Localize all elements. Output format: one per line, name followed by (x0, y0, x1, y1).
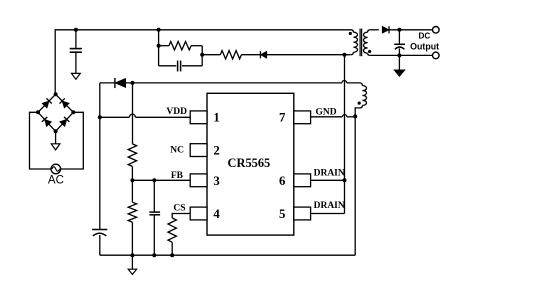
svg-text:CR5565: CR5565 (228, 156, 271, 170)
svg-text:CS: CS (173, 203, 185, 213)
svg-text:GND: GND (316, 107, 337, 117)
svg-text:2: 2 (213, 143, 219, 157)
svg-text:1: 1 (213, 110, 219, 124)
svg-text:DRAIN: DRAIN (314, 169, 345, 179)
svg-text:DC: DC (418, 32, 430, 41)
svg-text:4: 4 (213, 207, 220, 221)
svg-text:DRAIN: DRAIN (314, 201, 345, 211)
svg-text:7: 7 (279, 110, 286, 124)
svg-text:VDD: VDD (166, 107, 187, 117)
svg-text:AC: AC (48, 175, 64, 187)
svg-text:5: 5 (279, 207, 285, 221)
svg-text:NC: NC (170, 145, 184, 155)
svg-text:3: 3 (213, 174, 219, 188)
svg-text:Output: Output (410, 41, 439, 51)
svg-text:FB: FB (171, 171, 184, 181)
svg-text:6: 6 (279, 174, 286, 188)
